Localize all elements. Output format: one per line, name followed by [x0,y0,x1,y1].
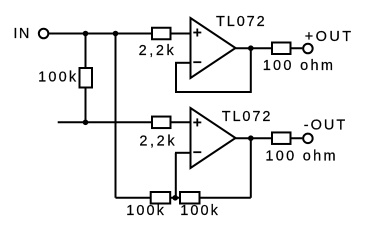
wire node A down to bottom rail [115,34,117,198]
svg-text:-OUT: -OUT [304,118,347,134]
svg-text:100k: 100k [180,203,220,219]
wire node A down to R1 [85,34,87,123]
node A junction dot 1 [83,31,89,37]
op-amp U1 minus pin symbol [193,61,201,63]
node B junction dot [83,120,89,126]
label TL072 U1 [216,14,267,30]
node bottom output junction dot [248,135,254,141]
label 100k R5 [126,203,166,219]
wire U2 inverting input stub [175,152,191,154]
op-amp U1 triangle [191,18,236,78]
label 100k R1 [38,69,78,85]
label 2,2k R4 [139,133,177,149]
resistor R4 2,2k bottom [152,117,171,129]
resistor R5 100k bottom left [151,192,171,204]
label +OUT [305,29,354,45]
wire U1 output [236,47,303,49]
svg-text:+OUT: +OUT [305,29,354,45]
wire U2 inverting input down to node X [175,153,177,198]
svg-text:100 ohm: 100 ohm [263,58,336,74]
input terminal IN [39,29,49,39]
wire U2 feedback down [250,138,252,198]
svg-text:2,2k: 2,2k [139,133,177,149]
svg-text:IN: IN [13,26,31,42]
label 100k R6 [180,203,220,219]
wire bottom input rail node B [58,121,191,123]
wire top input rail [49,33,191,35]
svg-text:TL072: TL072 [216,14,267,30]
output terminal +OUT [303,44,313,54]
label TL072 U2 [222,109,273,125]
svg-text:TL072: TL072 [222,109,273,125]
wire U1 feedback loop [176,48,251,92]
resistor R2 2,2k top [152,28,171,40]
op-amp U2 minus pin symbol [193,151,201,153]
op-amp U2 plus pin symbol [193,118,201,126]
wire U1 inverting input stub [175,62,191,64]
svg-text:100 ohm: 100 ohm [265,149,338,165]
label 100 ohm R7 [265,149,338,165]
resistor R3 100 ohm top [272,43,291,55]
op-amp U1 plus pin symbol [193,29,201,37]
node X junction dot [172,195,178,201]
resistor R1 100k vertical [80,68,93,88]
label 100 ohm R3 [263,58,336,74]
label -OUT [304,118,347,134]
node top output junction dot [248,45,254,51]
wire U2 output [236,137,303,139]
node A junction dot 2 [113,31,119,37]
output terminal -OUT [303,134,313,144]
svg-text:2,2k: 2,2k [139,43,177,59]
label 2,2k R2 [139,43,177,59]
wire bottom rail [116,197,251,199]
svg-text:100k: 100k [126,203,166,219]
label IN [13,26,31,42]
resistor R7 100 ohm bottom [272,132,291,144]
resistor R6 100k bottom right [180,192,200,204]
svg-text:100k: 100k [38,69,78,85]
op-amp U2 triangle [191,108,236,168]
